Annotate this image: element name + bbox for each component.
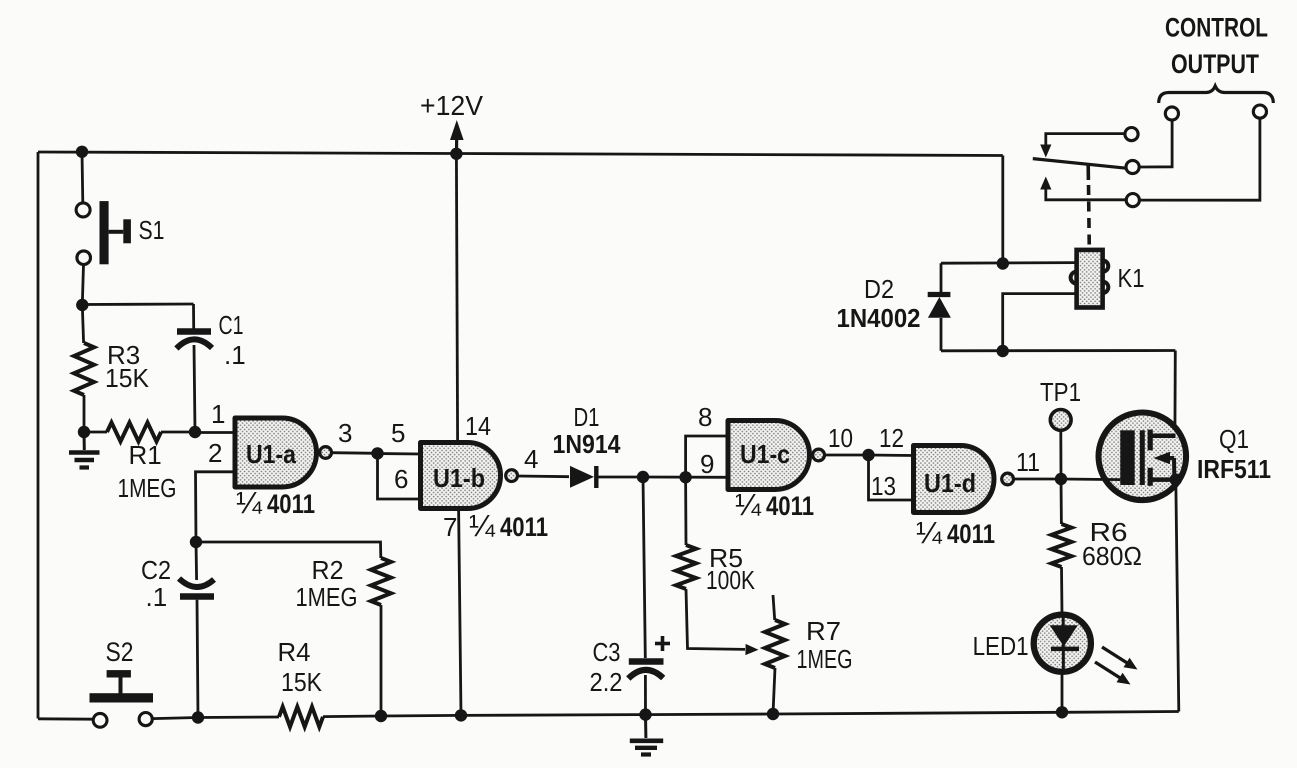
svg-text:680Ω: 680Ω [1082, 541, 1142, 571]
transistor Q1 label [1197, 424, 1271, 484]
resistor R1 [107, 423, 161, 442]
svg-text:10: 10 [828, 423, 853, 453]
node S2 bus junction [192, 711, 204, 723]
gate U1-c label [740, 439, 790, 469]
wire pin 9 lead [643, 476, 729, 479]
svg-text:4011: 4011 [947, 519, 995, 549]
svg-text:Q1: Q1 [1219, 424, 1249, 454]
resistor R4 [279, 707, 323, 727]
switch S1 bottom terminal [77, 251, 91, 265]
capacitor C2 [179, 579, 214, 597]
diode D2 label [837, 274, 921, 333]
diode D2 [928, 295, 951, 318]
wire pin 7 lead [459, 509, 461, 716]
pin 8 label [698, 402, 712, 432]
wire C2 bottom lead [197, 600, 198, 718]
svg-text:4011: 4011 [267, 489, 315, 519]
svg-text:+12V: +12V [420, 90, 483, 121]
svg-text:1MEG: 1MEG [296, 582, 358, 612]
relay NC arrow [1040, 145, 1051, 158]
svg-text:R1: R1 [129, 440, 162, 470]
relay armature [1033, 159, 1126, 169]
node C2/R2 junction [190, 536, 202, 548]
svg-text:C3: C3 [593, 637, 621, 667]
gate U1-a [235, 418, 317, 487]
svg-text:13: 13 [871, 471, 896, 501]
gate U1-b 1/4 4011 label [469, 508, 548, 543]
capacitor C1 [176, 332, 212, 349]
resistor R3 label [105, 340, 150, 393]
wire R2 bottom lead [380, 605, 383, 716]
wire pin 4 [517, 475, 569, 479]
svg-text:R7: R7 [806, 616, 841, 646]
wire coil return [1003, 294, 1077, 351]
svg-text:14: 14 [465, 411, 491, 441]
gate U1-c 1/4 4011 label [735, 487, 814, 522]
wire pin 10 [824, 454, 868, 457]
control output brace [1159, 86, 1274, 103]
svg-text:1N914: 1N914 [553, 429, 621, 459]
wire NO to output [1140, 118, 1260, 200]
wire pin 5 lead [378, 452, 422, 455]
svg-text:4: 4 [524, 444, 538, 474]
svg-text:R2: R2 [312, 555, 344, 585]
wire R3 bottom lead [83, 395, 86, 432]
transistor Q1 source stub [1148, 468, 1176, 486]
node D1 output junction [637, 471, 649, 483]
resistor R4 label [278, 637, 323, 697]
node R7 bus junction [767, 708, 779, 720]
relay NC contact line [1046, 134, 1125, 147]
capacitor C3 label [590, 637, 623, 697]
wire R7 bottom lead [773, 668, 775, 714]
resistor R1 label [118, 440, 177, 503]
svg-text:S2: S2 [106, 637, 134, 667]
switch S1 top terminal [76, 203, 90, 217]
wire Q1 source drop [1176, 480, 1179, 712]
relay K1 actuation dashed link [1087, 185, 1091, 250]
svg-text:6: 6 [394, 464, 408, 494]
node relay lower junction [997, 345, 1009, 357]
svg-text:1MEG: 1MEG [118, 473, 177, 503]
wire R6 top lead [1060, 479, 1063, 524]
test point TP1 [1050, 410, 1071, 431]
node S1 top junction [76, 146, 88, 158]
transistor Q1 drain stub [1148, 430, 1176, 451]
svg-text:.1: .1 [224, 340, 246, 370]
ground under R3 [69, 432, 100, 468]
relay K1 actuation link stub [1086, 165, 1090, 181]
relay NO arrow [1040, 177, 1051, 190]
transistor Q1 channel line [1140, 430, 1145, 485]
wire relay upper [941, 261, 1077, 264]
node LED1 bus junction [1056, 706, 1068, 718]
wire pin 1 lead [195, 431, 236, 434]
svg-text:U1-d: U1-d [924, 468, 976, 498]
gate U1-b [421, 443, 501, 509]
pin 12 label [879, 423, 904, 453]
node S1 bottom junction [76, 299, 88, 311]
svg-text:C1: C1 [219, 310, 244, 340]
svg-text:4011: 4011 [500, 512, 548, 542]
potentiometer R7 top lead [773, 595, 775, 620]
pin 10 label [828, 423, 853, 453]
resistor R5 [676, 545, 696, 589]
node pin3/5 junction [371, 447, 383, 459]
relay common terminal [1126, 160, 1139, 173]
wire S1 lower lead [82, 265, 83, 306]
relay NC contact terminal [1125, 128, 1138, 141]
node pin9 junction [679, 471, 691, 483]
transistor Q1 body arrow [1154, 452, 1175, 480]
wire bottom bus left stub [38, 717, 93, 720]
wire bottom bus mid [323, 712, 1179, 717]
svg-text:¼: ¼ [916, 515, 943, 550]
LED LED1 [1034, 615, 1091, 672]
wire pin 8 loop [686, 436, 729, 477]
wire left rail [37, 152, 40, 719]
svg-text:15K: 15K [105, 363, 150, 393]
wire S1 upper lead [81, 152, 85, 203]
relay K1 coil [1071, 250, 1109, 308]
potentiometer R7 label [797, 616, 853, 674]
svg-text:5: 5 [391, 418, 405, 448]
gate U1-a 1/4 4011 label [236, 485, 315, 520]
svg-text:.1: .1 [146, 582, 168, 612]
relay K1 label [1118, 263, 1145, 293]
transistor Q1 body [1099, 413, 1187, 501]
node R2 bus junction [375, 710, 387, 722]
wire pin 12 lead [869, 454, 915, 457]
node Q1 source junction [1170, 473, 1182, 485]
diode D1 label [553, 402, 621, 459]
resistor R5 label [706, 543, 756, 595]
svg-text:11: 11 [1016, 447, 1040, 477]
power +12V arrow [450, 120, 464, 152]
gate U1-a output bubble [320, 447, 332, 459]
wire relay lower [941, 349, 1175, 352]
ground under C3 [630, 715, 663, 755]
svg-text:D1: D1 [574, 402, 600, 432]
wire C1 bottom lead [194, 345, 195, 432]
wire pin 14 lead [456, 154, 457, 442]
wire D1 to junction [596, 476, 643, 479]
pin 1 label [211, 399, 225, 429]
gate U1-d [914, 445, 994, 512]
node pin1 junction [189, 426, 201, 438]
svg-text:¼: ¼ [735, 487, 762, 522]
wire Q1 gate lead [1061, 478, 1120, 481]
switch S2 right terminal [139, 713, 152, 726]
wire R1 right lead [161, 431, 195, 434]
svg-text:U1-a: U1-a [246, 439, 296, 469]
wire C1 top lead [192, 304, 195, 329]
node R3/R1 junction [78, 426, 90, 438]
pin 13 label [871, 471, 896, 501]
wire right bus drop to relay [1001, 156, 1004, 264]
pin 14 label [465, 411, 491, 441]
capacitor C2 label [141, 555, 171, 612]
wire R1 left lead [84, 431, 107, 434]
svg-text:U1-c: U1-c [740, 439, 790, 469]
gate U1-b output bubble [506, 470, 518, 482]
control output label [1165, 13, 1268, 80]
pin 9 label [700, 449, 714, 479]
test point TP1 label [1040, 377, 1081, 407]
node pin7 bus junction [455, 709, 467, 721]
svg-text:8: 8 [698, 402, 712, 432]
svg-text:OUTPUT: OUTPUT [1171, 49, 1259, 79]
svg-text:U1-b: U1-b [433, 463, 485, 493]
wire R5 top lead [684, 477, 687, 545]
gate U1-b label [433, 463, 485, 493]
svg-text:3: 3 [338, 418, 352, 448]
gate U1-d label [924, 468, 976, 498]
transistor Q1 gate bar [1120, 430, 1134, 485]
svg-text:7: 7 [443, 512, 457, 542]
svg-text:9: 9 [700, 449, 714, 479]
wire drain riser [1174, 351, 1177, 437]
switch S2 left terminal [93, 713, 107, 727]
capacitor C3 plus label [655, 636, 670, 651]
LED LED1 emission arrow 1 [1102, 647, 1138, 670]
wire common to output [1139, 120, 1172, 167]
svg-text:1: 1 [211, 399, 225, 429]
wire C2 top lead [195, 542, 198, 580]
svg-text:¼: ¼ [236, 485, 263, 520]
svg-text:¼: ¼ [469, 508, 496, 543]
wire D2 branch [940, 263, 943, 351]
svg-text:R4: R4 [278, 637, 311, 667]
LED LED1 label [973, 631, 1029, 661]
node pin10/12 junction [862, 449, 874, 461]
node +12V junction [450, 148, 462, 160]
pin 4 label [524, 444, 538, 474]
svg-text:4011: 4011 [766, 491, 814, 521]
wire TP1 stem [1059, 430, 1062, 479]
LED LED1 emission arrow 2 [1095, 662, 1131, 685]
resistor R3 [74, 343, 94, 395]
gate U1-a label [246, 439, 296, 469]
switch S1 plunger [100, 201, 131, 264]
pin 3 label [338, 418, 352, 448]
svg-text:100K: 100K [706, 565, 756, 595]
wire R6 bottom lead [1060, 567, 1063, 615]
svg-text:D2: D2 [864, 274, 894, 304]
wire pin 11 [1013, 478, 1061, 481]
resistor R7 [765, 620, 785, 668]
node relay upper junction [997, 257, 1009, 269]
wire C3 top lead [643, 477, 645, 658]
control output terminal right [1253, 105, 1266, 118]
capacitor C3 [628, 662, 663, 679]
switch S2 plunger [90, 670, 154, 702]
wire bottom bus [153, 717, 279, 719]
wire C3 bottom lead [644, 675, 647, 715]
control output terminal left [1165, 107, 1178, 120]
svg-text:2: 2 [208, 438, 222, 468]
switch S1 label [139, 215, 165, 245]
potentiometer R7 wiper arrow [745, 644, 758, 655]
wire S1 junction to C1 [82, 303, 193, 306]
gate U1-c [728, 421, 810, 490]
power +12V label [420, 90, 483, 121]
svg-text:CONTROL: CONTROL [1165, 13, 1268, 43]
resistor R2 [371, 558, 391, 605]
gate U1-d output bubble [1002, 473, 1014, 485]
svg-text:1N4002: 1N4002 [837, 303, 921, 333]
wire LED1 bottom lead [1061, 672, 1064, 713]
node C3 bus junction [639, 708, 651, 720]
pin 2 label [208, 438, 222, 468]
pin 11 label [1016, 447, 1040, 477]
gate U1-c output bubble [813, 449, 825, 461]
svg-text:TP1: TP1 [1040, 377, 1081, 407]
svg-text:K1: K1 [1118, 263, 1145, 293]
wire R3 top lead [82, 305, 83, 343]
pin 6 label [394, 464, 408, 494]
relay NO contact terminal [1126, 194, 1139, 207]
node pin11 junction [1055, 473, 1067, 485]
relay NO contact line [1046, 188, 1126, 200]
pin 7 label [443, 512, 457, 542]
wire R5 bottom lead [686, 589, 745, 649]
wire pin 3 [331, 451, 377, 454]
wire pin 6 loop [378, 454, 422, 500]
svg-text:15K: 15K [281, 667, 323, 697]
wire pin 2 lead [196, 472, 237, 542]
wire R2 top [196, 542, 381, 558]
gate U1-d 1/4 4011 label [916, 515, 995, 550]
wire pin 13 loop [869, 455, 915, 500]
svg-text:LED1: LED1 [973, 631, 1029, 661]
svg-text:12: 12 [879, 423, 904, 453]
svg-text:S1: S1 [139, 215, 165, 245]
resistor R2 label [296, 555, 358, 612]
svg-text:C2: C2 [141, 555, 171, 585]
resistor R6 label [1082, 517, 1142, 571]
switch S2 label [106, 637, 134, 667]
wire top supply bus [38, 152, 1003, 156]
svg-text:IRF511: IRF511 [1197, 454, 1271, 484]
svg-text:1MEG: 1MEG [797, 644, 853, 674]
resistor R6 [1052, 524, 1072, 567]
svg-text:2.2: 2.2 [590, 667, 623, 697]
capacitor C1 label [219, 310, 246, 370]
pin 5 label [391, 418, 405, 448]
diode D1 [570, 466, 596, 488]
